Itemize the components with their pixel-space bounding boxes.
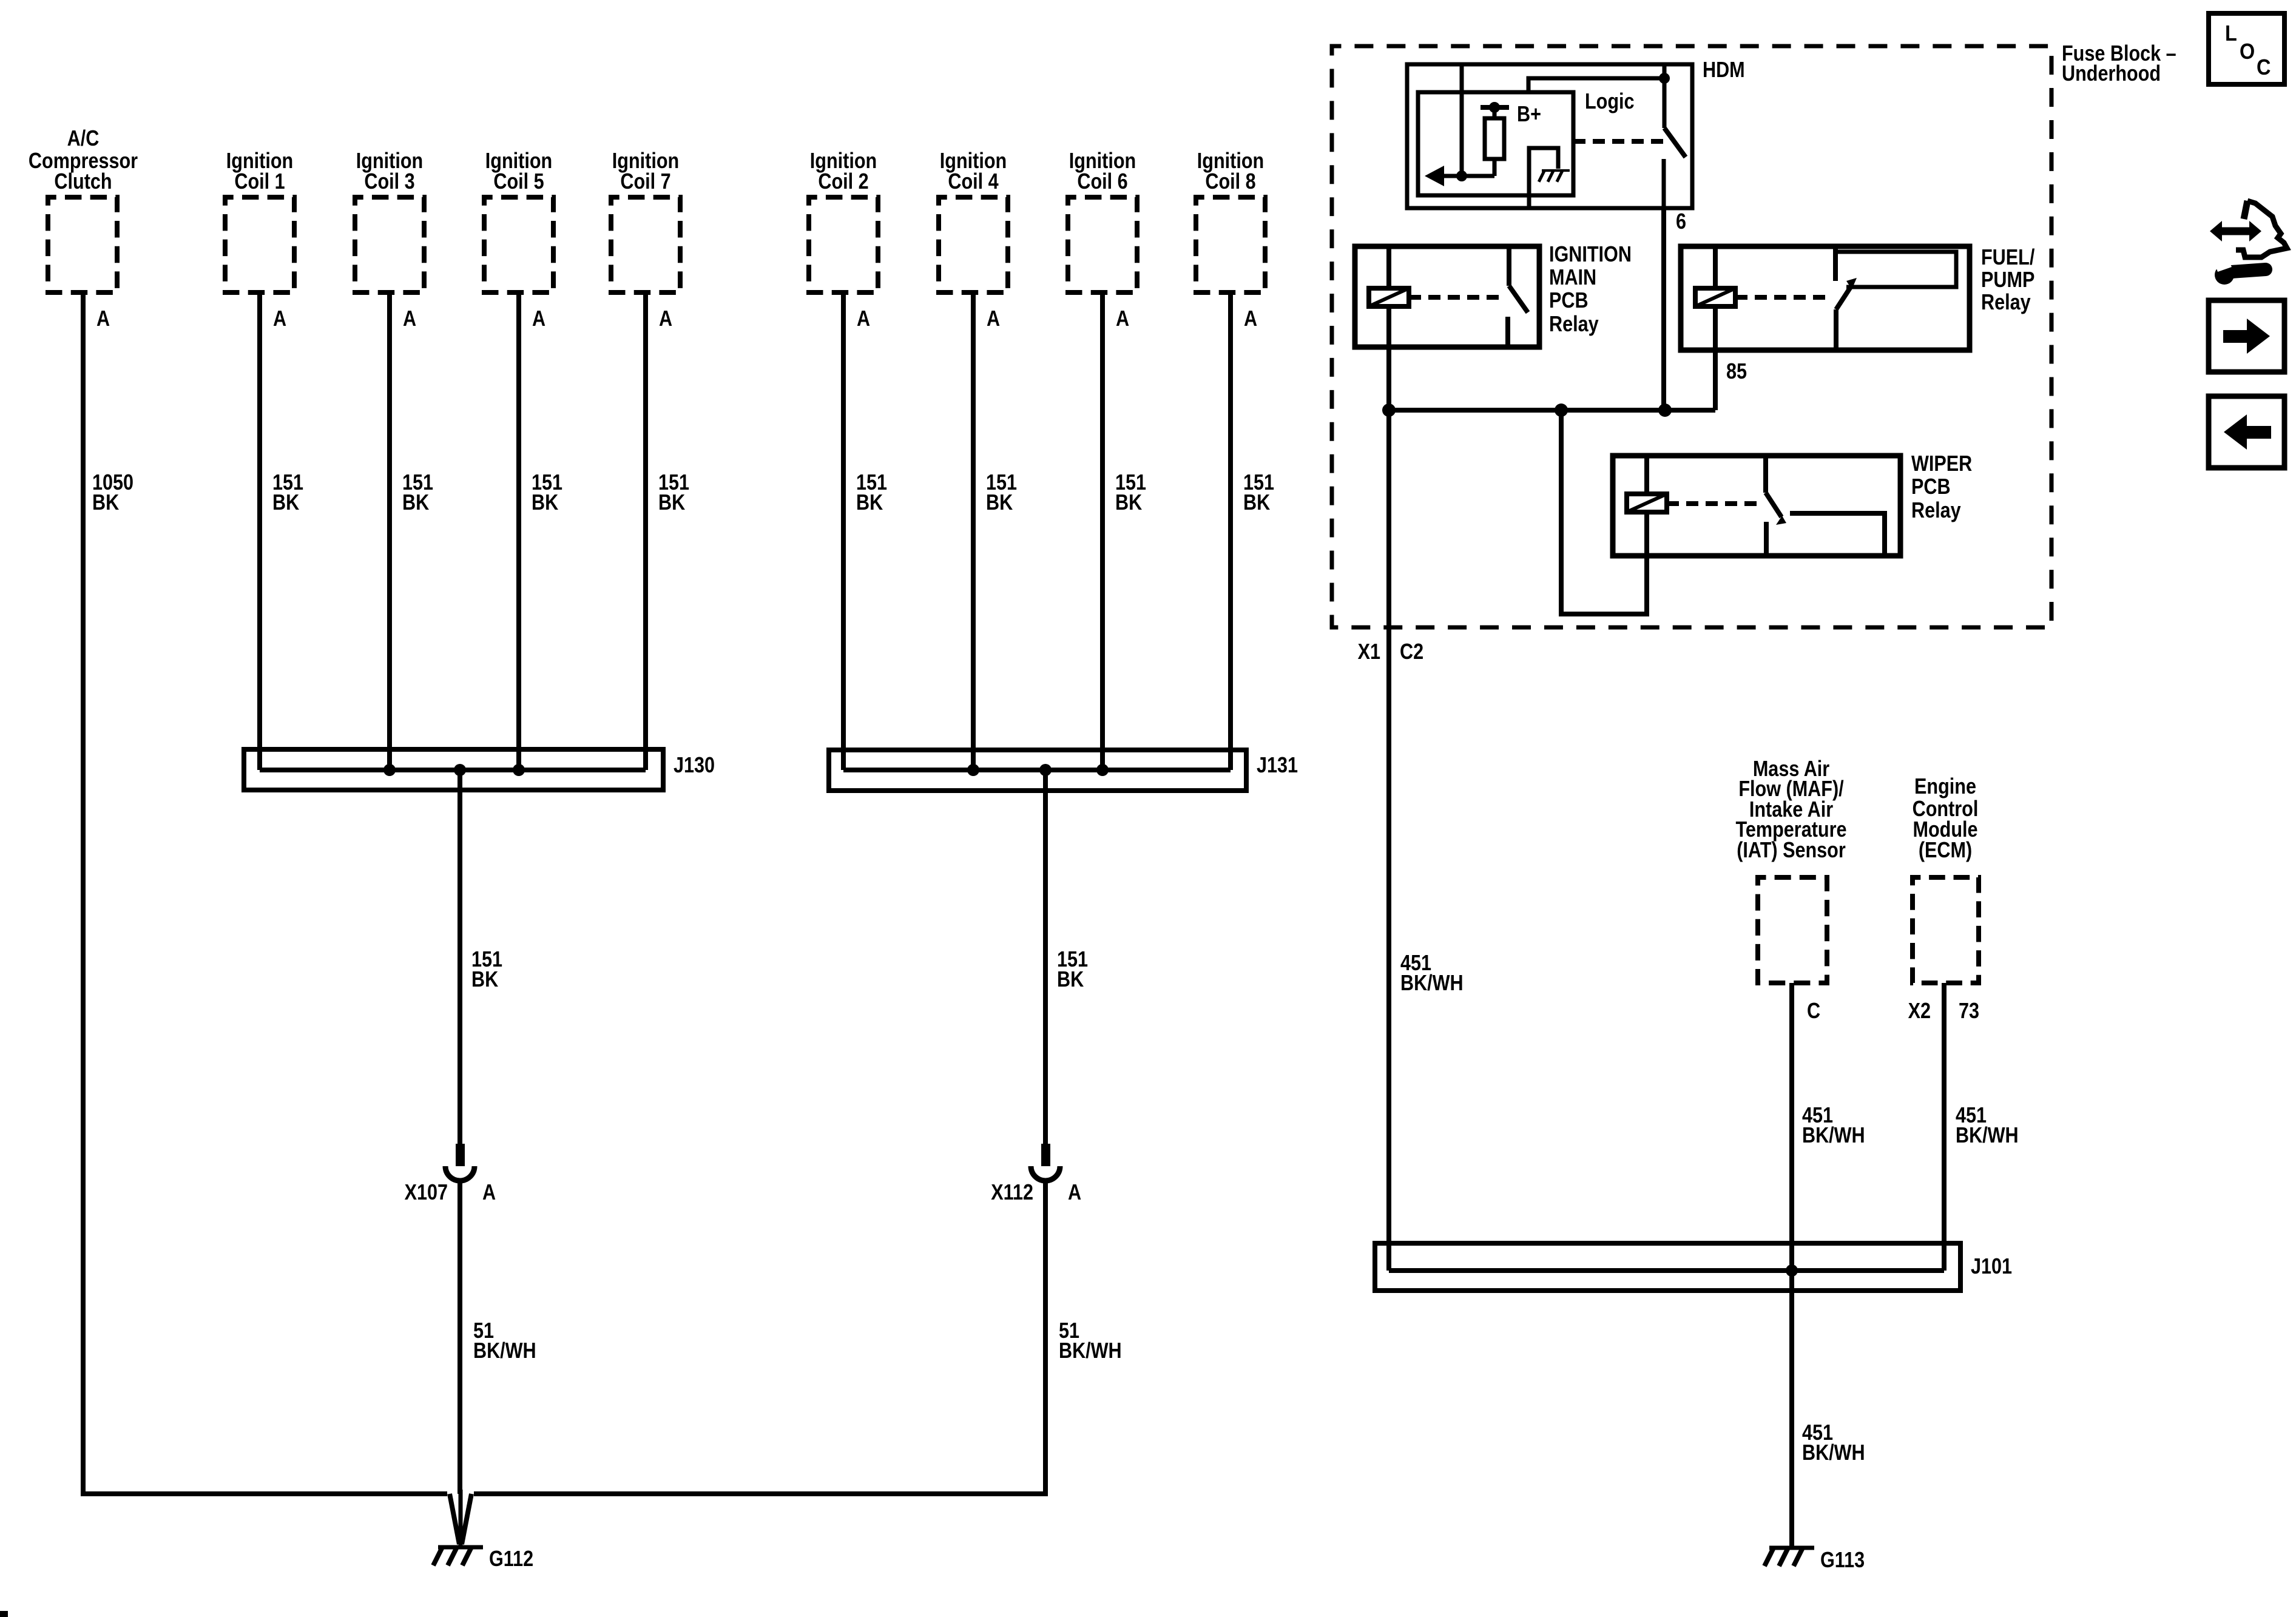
svg-text:IGNITION: IGNITION	[1549, 243, 1632, 267]
svg-text:PUMP: PUMP	[1981, 268, 2034, 292]
page corner artifact mark	[0, 1611, 8, 1617]
svg-text:85: 85	[1726, 360, 1747, 384]
svg-text:WIPER: WIPER	[1911, 452, 1972, 476]
relay coil (ignition main)	[1386, 246, 1391, 288]
svg-text:FUEL/: FUEL/	[1981, 246, 2034, 270]
connector X112	[1041, 1144, 1050, 1166]
svg-text:Coil 4: Coil 4	[948, 170, 999, 194]
B+ terminal	[1493, 107, 1497, 118]
resistor inside HDM	[1493, 159, 1497, 176]
connector box Ignition Coil 7	[611, 197, 680, 292]
svg-text:A: A	[659, 307, 672, 331]
svg-text:G113: G113	[1820, 1548, 1865, 1573]
dashed control line (fuel/pump relay)	[1735, 295, 1826, 300]
wire 451 BK/WH from MAF/IAT pin C to splice J101	[1789, 983, 1794, 1271]
HDM driver switch	[1663, 64, 1667, 128]
diagnostic icon: jagged outline	[2236, 201, 2287, 257]
svg-text:BK/WH: BK/WH	[1956, 1124, 2019, 1148]
dashed control line (wiper relay)	[1667, 501, 1757, 506]
svg-text:Logic: Logic	[1585, 90, 1635, 114]
svg-text:Engine: Engine	[1914, 775, 1976, 799]
svg-text:Relay: Relay	[1911, 499, 1961, 523]
svg-text:BK: BK	[658, 491, 685, 515]
back arrow icon box	[2209, 396, 2284, 468]
svg-text:Coil 8: Coil 8	[1205, 170, 1255, 194]
svg-text:J101: J101	[1971, 1255, 2012, 1279]
relay coil (wiper)	[1644, 456, 1649, 494]
svg-text:HDM: HDM	[1703, 58, 1745, 83]
wire 151 BK from Coil 7 pin A to splice J130	[643, 292, 648, 770]
svg-text:BK/WH: BK/WH	[1059, 1339, 1122, 1363]
junction dot J101	[1786, 1264, 1798, 1277]
HDM internal ground leg	[1529, 148, 1558, 209]
junction dot J130 (coil 3)	[383, 764, 396, 776]
svg-text:6: 6	[1676, 210, 1686, 234]
logic output line to switch	[1528, 78, 1664, 92]
junction dot J131 (coil 6)	[1096, 764, 1109, 776]
wire 451 BK/WH from ECM pin 73 to splice J101	[1942, 983, 1947, 1271]
svg-text:Coil 1: Coil 1	[234, 170, 285, 194]
relay coil (fuel/pump)	[1713, 246, 1718, 288]
splice pack J101	[1375, 1243, 1960, 1291]
wire 51 BK/WH from X112 to ground G112	[474, 1183, 1045, 1494]
svg-text:C: C	[1807, 999, 1820, 1024]
wire 151 BK from Coil 4 pin A to splice J131	[971, 292, 976, 770]
svg-text:A: A	[482, 1181, 496, 1205]
junction dot bus at HDM pin 6	[1658, 403, 1672, 417]
svg-text:A: A	[96, 307, 110, 331]
wire 1050 BK from A/C clutch pin A to ground junction	[83, 292, 447, 1494]
diagnostic icon: double arrow	[2220, 228, 2251, 235]
fuse block underhood dashed outline	[1332, 46, 2051, 627]
svg-text:Coil 3: Coil 3	[364, 170, 414, 194]
svg-text:BK/WH: BK/WH	[1802, 1124, 1865, 1148]
LOC legend icon box	[2209, 13, 2284, 84]
svg-text:Relay: Relay	[1981, 291, 2031, 315]
ground arrow into G112	[450, 1494, 459, 1544]
svg-text:Clutch: Clutch	[54, 170, 112, 194]
ground symbol inside HDM	[1542, 169, 1570, 172]
connector box Ignition Coil 3	[355, 197, 424, 292]
junction dot bus mid	[1555, 403, 1568, 417]
svg-text:A: A	[273, 307, 286, 331]
svg-text:Coil 7: Coil 7	[620, 170, 670, 194]
wire 451 BK/WH from J101 to ground G113	[1789, 1271, 1794, 1547]
svg-text:A/C: A/C	[67, 127, 100, 151]
svg-text:73: 73	[1959, 999, 1979, 1024]
relay switch (fuel/pump) with NO contact bar	[1833, 246, 1838, 281]
svg-text:(ECM): (ECM)	[1919, 839, 1972, 863]
svg-text:PCB: PCB	[1911, 475, 1951, 499]
svg-text:X1: X1	[1358, 640, 1380, 664]
svg-text:BK/WH: BK/WH	[473, 1339, 536, 1363]
FUEL/PUMP Relay box	[1681, 246, 1970, 350]
svg-text:BK: BK	[1057, 968, 1084, 992]
junction dot at HDM switch	[1659, 73, 1670, 84]
svg-text:BK: BK	[272, 491, 299, 515]
connector box ECM	[1913, 877, 1979, 983]
wire relay 85 pin to bus	[1713, 350, 1718, 410]
wire HDM pin 6 to relay bus	[1661, 208, 1666, 410]
wire 151 BK from Coil 8 pin A to splice J131	[1228, 292, 1233, 770]
svg-text:Coil 6: Coil 6	[1077, 170, 1127, 194]
svg-text:A: A	[1068, 1181, 1081, 1205]
HDM inner module box	[1418, 92, 1573, 195]
junction dot J130 (output)	[454, 764, 466, 776]
ground G112	[438, 1545, 483, 1550]
svg-text:J130: J130	[674, 754, 715, 778]
svg-text:Relay: Relay	[1549, 312, 1599, 337]
svg-text:A: A	[403, 307, 416, 331]
svg-text:Coil 5: Coil 5	[493, 170, 544, 194]
relay switch (wiper) with NO contact bar	[1763, 456, 1768, 493]
svg-text:J131: J131	[1257, 754, 1298, 778]
svg-text:BK: BK	[471, 968, 498, 992]
svg-text:C: C	[2257, 55, 2271, 79]
connector box Ignition Coil 1	[225, 197, 294, 292]
svg-text:BK: BK	[856, 491, 883, 515]
wire 51 BK/WH from X107 to ground G112	[458, 1183, 462, 1494]
splice pack J131	[829, 750, 1246, 791]
svg-text:X2: X2	[1908, 999, 1931, 1024]
junction dot bus left	[1382, 403, 1396, 417]
connector box Ignition Coil 5	[484, 197, 553, 292]
connector box A/C Compressor Clutch	[48, 197, 117, 292]
dashed control line inside HDM	[1573, 139, 1670, 144]
diagnostic icon: wrench	[2215, 265, 2234, 285]
ground G113	[1769, 1546, 1814, 1550]
HDM internal wire from top rail	[1460, 64, 1464, 176]
connector box Ignition Coil 8	[1196, 197, 1265, 292]
svg-text:BK/WH: BK/WH	[1400, 971, 1464, 996]
wire 451 BK/WH from fuse block X1 to splice J101	[1386, 410, 1391, 1271]
svg-text:BK: BK	[1243, 491, 1270, 515]
svg-text:BK: BK	[92, 491, 119, 515]
svg-text:G112: G112	[489, 1547, 533, 1571]
svg-text:MAIN: MAIN	[1549, 266, 1596, 290]
connector box MAF/IAT sensor	[1758, 877, 1827, 983]
splice pack J130	[244, 749, 663, 790]
HDM internal arrow (output to left)	[1432, 174, 1494, 178]
wire 151 BK from Coil 6 pin A to splice J131	[1100, 292, 1105, 770]
connector X107	[456, 1144, 465, 1166]
svg-text:BK/WH: BK/WH	[1802, 1441, 1865, 1465]
wire 151 BK from Coil 2 pin A to splice J131	[841, 292, 846, 770]
wire 151 BK from J131 to connector X112	[1043, 770, 1048, 1144]
svg-text:C2: C2	[1400, 640, 1423, 664]
wire 151 BK from Coil 5 pin A to splice J130	[516, 292, 521, 770]
forward arrow icon box	[2209, 300, 2284, 372]
connector box Ignition Coil 6	[1068, 197, 1137, 292]
svg-text:BK: BK	[402, 491, 429, 515]
IGNITION MAIN PCB Relay box	[1355, 246, 1539, 347]
HDM module outer box	[1407, 64, 1692, 208]
connector box Ignition Coil 4	[939, 197, 1008, 292]
svg-text:X112: X112	[991, 1181, 1033, 1205]
svg-text:A: A	[1116, 307, 1129, 331]
junction dot J130 (coil 5)	[513, 764, 525, 776]
relay switch (ignition main)	[1507, 246, 1511, 286]
wire 151 BK from Coil 1 pin A to splice J130	[257, 292, 262, 770]
bus wire inside fuse block	[1389, 408, 1715, 413]
svg-text:A: A	[532, 307, 545, 331]
svg-text:X107: X107	[405, 1181, 448, 1205]
connector box Ignition Coil 2	[809, 197, 878, 292]
junction dot J131 (coil 4)	[967, 764, 979, 776]
wire 151 BK from Coil 3 pin A to splice J130	[387, 292, 392, 770]
WIPER PCB Relay box	[1613, 456, 1900, 556]
svg-text:A: A	[857, 307, 870, 331]
svg-text:BK: BK	[986, 491, 1013, 515]
svg-text:Underhood: Underhood	[2062, 62, 2161, 86]
svg-text:L: L	[2225, 21, 2237, 46]
dashed control line (ignition main relay)	[1409, 295, 1500, 300]
svg-text:A: A	[1244, 307, 1257, 331]
svg-text:O: O	[2240, 39, 2255, 64]
svg-text:BK: BK	[532, 491, 558, 515]
svg-text:Coil 2: Coil 2	[818, 170, 868, 194]
svg-text:(IAT) Sensor: (IAT) Sensor	[1737, 839, 1846, 863]
junction dot J131 (output)	[1039, 764, 1052, 776]
HDM internal junction dot	[1456, 170, 1467, 181]
svg-text:PCB: PCB	[1549, 289, 1589, 313]
svg-text:A: A	[987, 307, 1000, 331]
svg-text:BK: BK	[1115, 491, 1142, 515]
wire bus to wiper relay coil	[1561, 410, 1647, 614]
wire 151 BK from J130 to connector X107	[458, 770, 462, 1144]
svg-text:B+: B+	[1517, 103, 1541, 127]
wire ignition main relay coil to bus	[1386, 347, 1391, 410]
